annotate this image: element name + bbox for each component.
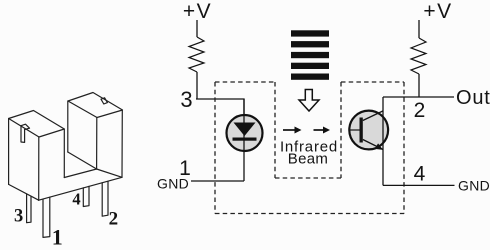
transistor collector stroke	[363, 111, 383, 121]
front bottom edge	[39, 177, 122, 200]
dashed box top edge left segment	[215, 81, 275, 83]
slot left inner vertical edge	[63, 129, 65, 178]
wire pin3 to LED anode	[196, 99, 244, 115]
front-left vertical edge	[38, 137, 40, 200]
svg-text:4: 4	[414, 163, 426, 186]
resistor (right, pull-up)	[411, 38, 426, 74]
phototransistor Q1	[349, 111, 388, 150]
right tower front-left vertical edge	[96, 118, 98, 170]
bar 4	[291, 63, 329, 69]
svg-text:2: 2	[109, 209, 119, 230]
wire GND to LED cathode (pin 1)	[191, 180, 244, 182]
LED triangle (anode)	[234, 123, 256, 137]
svg-text:GND: GND	[458, 178, 490, 194]
right tower top face	[68, 93, 123, 118]
notch on left tower (aperture slit)	[21, 126, 25, 143]
svg-text:Out: Out	[456, 87, 490, 109]
LED cathode bar	[233, 138, 257, 141]
interrupter object (black bars)	[291, 30, 329, 80]
collector/emitter wire through transistor	[382, 97, 384, 185]
dashed box top edge right segment	[341, 81, 404, 83]
wire from +V to resistor R-left	[196, 20, 198, 37]
infrared beam arrow 2	[314, 127, 331, 134]
LED D1 (infrared emitter)	[227, 115, 263, 151]
wire through LED (anode to cathode lead)	[243, 99, 245, 181]
bar 2	[291, 41, 329, 47]
dashed slot right wall	[340, 82, 342, 178]
slot floor front edge (width)	[64, 169, 96, 178]
svg-text:4: 4	[72, 190, 80, 209]
wire emitter to GND (pin 4)	[383, 184, 455, 186]
wire from +V to resistor R-right	[418, 20, 420, 38]
transistor emitter stroke	[363, 140, 383, 150]
dashed box left edge	[214, 82, 216, 214]
lower-right ledge edge	[97, 169, 122, 177]
slot floor edge (depth)	[68, 152, 97, 169]
bar 5	[291, 74, 329, 80]
right silhouette vertical edge	[121, 110, 123, 177]
svg-text:+V: +V	[423, 0, 452, 23]
wire collector to Out (pin 2)	[383, 96, 454, 98]
svg-text:1: 1	[52, 225, 63, 250]
dashed slot bottom	[275, 177, 341, 179]
left tower top face	[9, 111, 65, 138]
svg-text:3: 3	[14, 206, 23, 226]
svg-text:+V: +V	[183, 0, 212, 23]
svg-text:Beam: Beam	[288, 150, 328, 167]
left silhouette vertical edge	[8, 119, 10, 185]
svg-text:3: 3	[180, 87, 192, 112]
svg-text:2: 2	[414, 99, 426, 122]
transistor base lead	[349, 129, 360, 131]
bar 3	[291, 52, 329, 58]
infrared beam arrow 1	[283, 127, 302, 134]
resistor (left, current limiting)	[189, 37, 204, 72]
pin 3 (back-left)	[27, 194, 31, 223]
transistor base bar	[360, 118, 363, 143]
dashed device outline box	[215, 82, 404, 214]
dashed box right edge	[403, 82, 405, 214]
pin 4 (back-right)	[83, 186, 89, 206]
pin 2 (front-right)	[102, 181, 108, 216]
dashed slot left wall	[274, 82, 276, 178]
right tower back-left vertical edge	[67, 101, 69, 152]
emitter arrowhead	[375, 143, 383, 149]
notch on right tower top face	[101, 98, 107, 104]
bar 1	[291, 30, 329, 36]
hollow down arrow (object entering slot)	[299, 90, 319, 112]
wire resistor to pin 3 node	[196, 72, 198, 99]
dashed box bottom edge	[215, 213, 404, 215]
svg-text:GND: GND	[157, 175, 189, 191]
pin 1 (front-left)	[43, 197, 50, 237]
left face bottom edge	[9, 184, 39, 200]
wire resistor to pin 2 node	[418, 74, 420, 97]
